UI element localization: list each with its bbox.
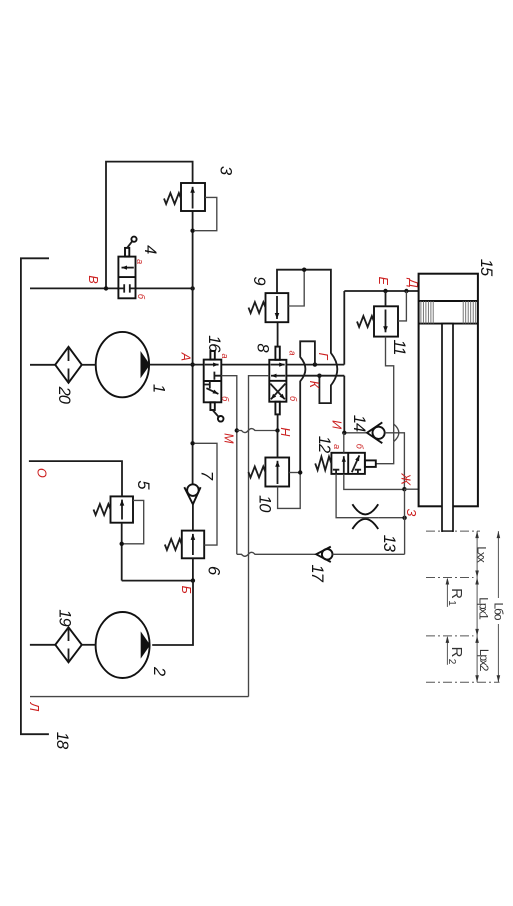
- svg-text:14: 14: [350, 415, 368, 432]
- svg-text:15: 15: [477, 259, 495, 277]
- svg-text:R: R: [448, 647, 465, 658]
- svg-text:13: 13: [380, 535, 398, 553]
- svg-text:11: 11: [390, 340, 408, 355]
- svg-text:Lрх1: Lрх1: [476, 597, 490, 620]
- svg-text:18: 18: [53, 732, 71, 750]
- svg-text:9: 9: [250, 276, 268, 285]
- svg-text:В: В: [86, 275, 100, 283]
- svg-text:4: 4: [141, 245, 159, 254]
- svg-text:2: 2: [150, 666, 168, 676]
- svg-text:О: О: [35, 468, 49, 478]
- svg-text:Lхх: Lхх: [475, 546, 489, 562]
- svg-text:А: А: [178, 352, 192, 361]
- svg-text:12: 12: [315, 436, 333, 453]
- svg-text:10: 10: [256, 495, 274, 513]
- svg-text:И: И: [330, 420, 344, 429]
- svg-text:19: 19: [56, 609, 74, 626]
- svg-text:1: 1: [150, 384, 168, 392]
- svg-text:20: 20: [55, 386, 73, 405]
- svg-text:R: R: [448, 588, 465, 599]
- svg-text:16: 16: [205, 335, 223, 353]
- svg-text:Lбо: Lбо: [491, 603, 505, 621]
- svg-text:Lрх2: Lрх2: [477, 649, 491, 672]
- svg-text:Б: Б: [179, 586, 193, 594]
- svg-text:17: 17: [308, 565, 326, 583]
